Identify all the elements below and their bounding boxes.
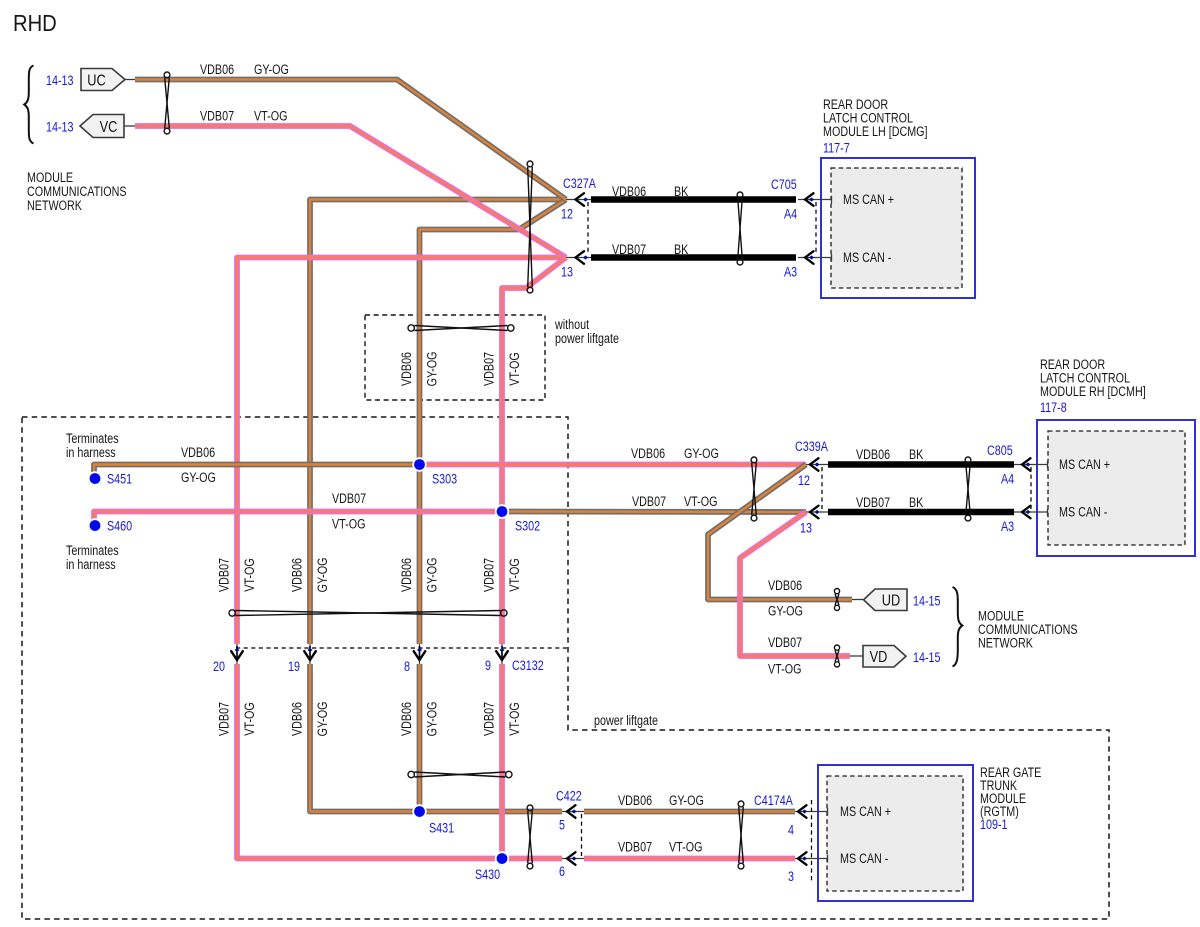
pin line C422-6 [562, 858, 584, 860]
pin line C3132-8 [419, 644, 421, 664]
svg-text:VDB06: VDB06 [399, 558, 415, 592]
arrow C805 pin A3 [1022, 506, 1031, 519]
svg-text:A4: A4 [1001, 471, 1014, 487]
twisted-pair symbol above C3132 [229, 610, 507, 616]
brace left (module communications network) [24, 66, 33, 144]
wire VDB07 BK (C327A to C705) [591, 254, 796, 261]
stub line UD tag [852, 599, 864, 601]
svg-text:S430: S430 [475, 867, 500, 883]
arrow C327A pin 12 [576, 193, 585, 206]
pin line C3132-20 [236, 644, 238, 664]
svg-text:14-13: 14-13 [46, 73, 74, 89]
svg-text:in harness: in harness [66, 557, 116, 573]
svg-text:GY-OG: GY-OG [424, 352, 440, 387]
pin line C4174A-3 [795, 858, 828, 860]
pin line C327A-12 [566, 199, 591, 201]
svg-text:BK: BK [674, 184, 689, 200]
svg-text:VDB07: VDB07 [618, 839, 652, 855]
svg-text:VDB06: VDB06 [289, 702, 305, 736]
connector C4174A dashed line [811, 800, 813, 881]
svg-text:VDB07: VDB07 [481, 702, 497, 736]
svg-text:S302: S302 [515, 518, 540, 534]
svg-text:9: 9 [485, 658, 491, 674]
wire VDB06 GY-OG from S451 to S303 [94, 465, 420, 473]
twisted-pair symbol above S431 [408, 771, 512, 777]
svg-text:VT-OG: VT-OG [507, 558, 523, 591]
svg-text:117-8: 117-8 [1040, 400, 1067, 416]
wire VDB06 GY-OG from C422 pin 5 to C4174A pin 4 [584, 809, 795, 815]
svg-text:13: 13 [800, 520, 812, 536]
twisted-pair symbol left of C339A [751, 457, 757, 521]
svg-text:VDB07: VDB07 [856, 495, 890, 511]
svg-text:VDB07: VDB07 [200, 108, 234, 124]
arrow C705 pin A3 [805, 251, 814, 264]
svg-text:VDB06: VDB06 [399, 352, 415, 386]
tag VC (to 14-13) [80, 115, 124, 138]
svg-text:A3: A3 [784, 264, 797, 280]
svg-text:MS CAN +: MS CAN + [843, 192, 894, 208]
svg-text:109-1: 109-1 [980, 817, 1008, 833]
arrow C4174A pin 4 [798, 805, 807, 818]
svg-text:GY-OG: GY-OG [424, 558, 440, 593]
svg-text:MS CAN -: MS CAN - [843, 250, 891, 266]
svg-text:VT-OG: VT-OG [254, 108, 287, 124]
svg-text:C805: C805 [987, 443, 1013, 459]
pin line C705-A4 [798, 199, 832, 201]
svg-text:power liftgate: power liftgate [555, 331, 619, 347]
module DCMH box [1037, 420, 1195, 556]
twisted-pair symbol left of C4174A [738, 801, 744, 869]
wire VDB07 VT-OG from S460 to S302 [94, 512, 502, 520]
svg-text:GY-OG: GY-OG [684, 446, 719, 462]
svg-text:GY-OG: GY-OG [669, 793, 704, 809]
pin line C3132-9 [501, 644, 503, 664]
arrow C339A pin 13 [810, 506, 819, 519]
twisted-pair symbol left of C327A [527, 161, 533, 293]
connector C327A dashed line [587, 202, 589, 255]
svg-text:VT-OG: VT-OG [684, 494, 717, 510]
pin line C3132-19 [309, 644, 311, 664]
splice S451 [88, 471, 102, 485]
svg-text:C422: C422 [556, 788, 582, 804]
svg-text:BK: BK [674, 242, 689, 258]
svg-text:VD: VD [870, 649, 888, 667]
svg-text:S303: S303 [432, 471, 457, 487]
arrow C422 pin 5 [567, 805, 576, 818]
dashed box: without power liftgate [365, 315, 545, 400]
svg-text:UC: UC [87, 72, 105, 90]
splice S302 [495, 504, 509, 518]
wire VDB06 (drawn violet) from S303 to C339A pin 12 [420, 462, 807, 468]
svg-text:8: 8 [404, 659, 410, 675]
svg-text:19: 19 [288, 659, 300, 675]
wire VDB06 GY-OG x419 below C3132 to splice S431 [417, 664, 423, 812]
twisted-pair symbol left of C422 [527, 805, 533, 869]
svg-text:C3132: C3132 [512, 658, 544, 674]
pin line C805-A4 [1014, 464, 1048, 466]
svg-text:MODULE LH [DCMG]: MODULE LH [DCMG] [823, 124, 928, 140]
svg-text:BK: BK [909, 495, 924, 511]
connector C705 dashed line [815, 202, 817, 255]
stub line VD tag [850, 655, 863, 657]
wire VDB07 VT-OG vertical x237 (pin13 to C3132-20) [237, 258, 566, 645]
arrow C339A pin 12 [810, 458, 819, 471]
splice S430 [495, 851, 509, 865]
svg-text:VDB06: VDB06 [768, 578, 802, 594]
wire VDB06 BK (C339A to C805) [828, 461, 1014, 468]
tag VD (to 14-15) [863, 646, 906, 668]
connector C805 dashed line [1030, 467, 1032, 509]
wire VDB07 VT-OG vertical x502 (pin13 to C3132-9) [502, 258, 566, 645]
svg-text:MS CAN -: MS CAN - [840, 851, 888, 867]
svg-text:S460: S460 [107, 518, 132, 534]
svg-text:VDB06: VDB06 [631, 446, 665, 462]
svg-text:VDB06: VDB06 [618, 793, 652, 809]
svg-text:in harness: in harness [66, 445, 116, 461]
arrow C3132 pin 9 [501, 646, 503, 660]
svg-text:3: 3 [788, 869, 794, 885]
svg-text:VDB07: VDB07 [481, 352, 497, 386]
svg-text:VDB06: VDB06 [612, 184, 646, 200]
svg-text:GY-OG: GY-OG [181, 470, 216, 486]
svg-text:MS CAN -: MS CAN - [1059, 504, 1107, 520]
svg-text:VDB06: VDB06 [289, 558, 305, 592]
svg-text:VDB06: VDB06 [399, 702, 415, 736]
pin line C805-A3 [1014, 511, 1048, 513]
svg-text:GY-OG: GY-OG [315, 558, 331, 593]
svg-text:BK: BK [909, 447, 924, 463]
svg-text:power liftgate: power liftgate [594, 713, 658, 729]
svg-text:VDB06: VDB06 [181, 445, 215, 461]
svg-text:VT-OG: VT-OG [507, 702, 523, 735]
wire VDB07 BK (C339A to C805) [828, 509, 1014, 516]
svg-text:VT-OG: VT-OG [507, 352, 523, 385]
connector C339A dashed line [821, 467, 823, 509]
arrow C4174A pin 3 [798, 852, 807, 865]
twisted-pair symbol VD wire [834, 645, 839, 667]
svg-text:12: 12 [798, 473, 810, 489]
tag UC (to 14-13) [81, 69, 125, 91]
arrow C3132 pin 20 [236, 646, 238, 660]
pin line C339A-12 [806, 464, 828, 466]
svg-text:C4174A: C4174A [754, 793, 794, 809]
svg-text:6: 6 [559, 864, 565, 880]
wire VDB06 GY-OG from UC to C327A pin 12 [135, 80, 566, 200]
pin line C339A-13 [806, 511, 828, 513]
brace right (module communications network) [953, 587, 963, 667]
svg-text:14-15: 14-15 [913, 593, 941, 609]
svg-text:VT-OG: VT-OG [332, 516, 365, 532]
svg-text:VDB07: VDB07 [612, 242, 646, 258]
wire VDB07 (drawn gray) from S302 to C339A pin 13 [502, 509, 806, 515]
svg-text:VDB06: VDB06 [200, 62, 234, 78]
svg-text:C327A: C327A [563, 176, 597, 192]
svg-text:20: 20 [213, 659, 225, 675]
wire VDB06 BK (C327A to C705) [591, 196, 796, 203]
svg-text:S451: S451 [107, 471, 132, 487]
svg-text:A4: A4 [784, 206, 797, 222]
wire VDB07 VT-OG x502 below C3132 to splice S430 [499, 664, 505, 859]
svg-text:RHD: RHD [13, 10, 57, 37]
wire VDB07 VT-OG from C339A pin 13 to VD [740, 512, 850, 656]
svg-text:VDB07: VDB07 [481, 558, 497, 592]
splice S431 [412, 804, 426, 818]
svg-text:VT-OG: VT-OG [242, 558, 258, 591]
svg-text:VT-OG: VT-OG [669, 839, 702, 855]
svg-text:VDB06: VDB06 [856, 447, 890, 463]
svg-text:C339A: C339A [795, 439, 829, 455]
svg-text:VT-OG: VT-OG [242, 702, 258, 735]
arrow C705 pin A4 [805, 193, 814, 206]
svg-text:117-7: 117-7 [823, 140, 850, 156]
wire VDB07 VT-OG x237 below C3132 to C422 pin 6 [237, 664, 562, 859]
tag UD (to 14-15) [864, 589, 908, 611]
stub line VC tag [124, 125, 135, 127]
arrow C3132 pin 8 [419, 646, 421, 660]
twisted-pair symbol BK pair C805 [965, 457, 971, 521]
svg-text:VDB07: VDB07 [216, 702, 232, 736]
svg-text:VDB07: VDB07 [768, 635, 802, 651]
svg-text:MODULE RH [DCMH]: MODULE RH [DCMH] [1040, 384, 1146, 400]
wire VDB06 GY-OG vertical x310 (pin12 to C3132-19) [310, 200, 566, 645]
svg-text:S431: S431 [429, 820, 454, 836]
svg-text:UD: UD [882, 592, 900, 610]
svg-text:VDB07: VDB07 [332, 491, 366, 507]
arrow C805 pin A4 [1022, 458, 1031, 471]
wire VDB06 GY-OG x310 below C3132 to C422 pin 5 [310, 664, 562, 812]
svg-text:14-13: 14-13 [46, 119, 74, 135]
module DCMG box [821, 158, 975, 298]
svg-text:A3: A3 [1001, 519, 1014, 535]
arrow C327A pin 13 [576, 251, 585, 264]
svg-text:MS CAN +: MS CAN + [1059, 457, 1110, 473]
splice S303 [412, 457, 426, 471]
svg-text:GY-OG: GY-OG [424, 702, 440, 737]
svg-text:GY-OG: GY-OG [315, 702, 331, 737]
module RGTM box [818, 765, 973, 901]
svg-text:13: 13 [561, 264, 573, 280]
svg-text:VC: VC [100, 119, 118, 137]
svg-text:12: 12 [561, 206, 573, 222]
twisted-pair symbol UC/VC [164, 72, 170, 134]
svg-text:5: 5 [559, 817, 565, 833]
twisted-pair symbol BK pair C705 [737, 192, 743, 265]
twisted-pair symbol in without-liftgate box [408, 325, 514, 331]
svg-text:NETWORK: NETWORK [27, 198, 83, 214]
pin line C4174A-4 [795, 811, 828, 813]
connector C422 dashed line [581, 814, 583, 856]
harness region dashed box (power liftgate area) [22, 417, 1109, 919]
wire VDB06 GY-OG vertical x419 (pin12 to C3132-8) [420, 200, 567, 645]
svg-text:MS CAN +: MS CAN + [840, 804, 891, 820]
svg-text:VDB07: VDB07 [216, 558, 232, 592]
svg-text:VT-OG: VT-OG [768, 661, 801, 677]
wire VDB07 VT-OG from C422 pin 6 to C4174A pin 3 [584, 856, 795, 862]
pin line C327A-13 [566, 257, 591, 259]
wire VDB06 GY-OG from C339A pin 12 to UD [708, 465, 852, 600]
wire VDB07 VT-OG from VC to C327A pin 13 [135, 126, 566, 258]
pin line C705-A3 [798, 257, 832, 259]
svg-text:NETWORK: NETWORK [978, 635, 1034, 651]
svg-text:GY-OG: GY-OG [254, 62, 289, 78]
arrow C3132 pin 19 [309, 646, 311, 660]
splice S460 [88, 518, 102, 532]
svg-text:14-15: 14-15 [913, 650, 941, 666]
stub line UC tag [125, 79, 135, 81]
connector C3132 dashed line [236, 647, 569, 649]
twisted-pair symbol UD wire [834, 589, 839, 611]
arrow C422 pin 6 [567, 852, 576, 865]
pin line C422-5 [562, 811, 584, 813]
svg-text:4: 4 [788, 822, 794, 838]
svg-text:VDB07: VDB07 [632, 494, 666, 510]
svg-text:C705: C705 [771, 177, 797, 193]
svg-text:GY-OG: GY-OG [768, 603, 803, 619]
